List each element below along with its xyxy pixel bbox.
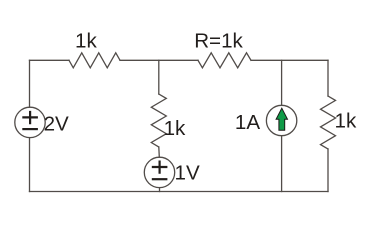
V2 minus sign (152, 178, 168, 180)
voltage source V1 2V circle (15, 107, 45, 137)
svg-text:2V: 2V (44, 113, 69, 136)
resistor R2 R=1k (top-right zigzag) (198, 53, 251, 68)
wire top-middle segment (120, 59, 198, 61)
svg-text:1k: 1k (164, 117, 186, 140)
svg-text:R=1k: R=1k (194, 30, 243, 53)
wire left vertical lower (29, 138, 31, 192)
wire left vertical upper (29, 60, 31, 107)
wire bottom (30, 191, 329, 193)
V1 minus sign (22, 128, 38, 130)
resistor R1 1k (top-left zigzag) (69, 53, 120, 68)
current source I1 1A circle (266, 105, 296, 135)
I1 green up arrow (276, 108, 287, 130)
wire middle branch upper (158, 60, 160, 94)
wire top-right segment (251, 59, 328, 61)
voltage source V2 1V circle (144, 157, 174, 187)
wire middle lead to source (158, 147, 161, 157)
V1 plus sign (22, 111, 38, 124)
svg-text:1k: 1k (75, 30, 97, 53)
svg-text:1A: 1A (235, 111, 260, 134)
V2 plus sign (152, 161, 168, 174)
wire right vertical upper (327, 60, 329, 96)
wire current-source branch upper (281, 60, 283, 105)
svg-text:1V: 1V (175, 161, 200, 184)
svg-text:1k: 1k (335, 110, 357, 133)
resistor R4 1k (right vertical zigzag) (321, 96, 336, 149)
wire current-source branch lower (281, 136, 283, 192)
wire middle stub below 1V (159, 188, 161, 192)
wire top-left segment (30, 59, 70, 61)
wire right vertical lower (327, 149, 329, 192)
resistor R3 1k (middle vertical zigzag) (151, 94, 166, 147)
